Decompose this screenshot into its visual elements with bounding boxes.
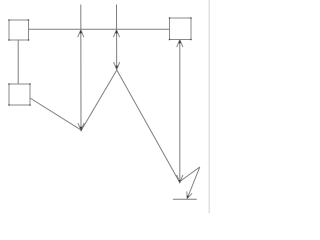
wire L2 shaft (vertical at x=116.5) bbox=[116, 5, 118, 70]
wire V2 shaft (box2 to node B) bbox=[179, 40, 181, 183]
box B1 (top-left) bbox=[9, 20, 29, 40]
wire L1 shaft (vertical at x=81) bbox=[80, 5, 82, 131]
node A tip dot bbox=[80, 129, 82, 132]
arrowhead L2 up (tip at horizontal wire) bbox=[113, 30, 119, 37]
arrowhead L1 down (tip at node A) bbox=[78, 123, 84, 130]
wire D2 (apex to node B) bbox=[117, 70, 180, 182]
arrowhead E2 (at ground) bbox=[187, 191, 192, 198]
wire D1 (apex to node A) bbox=[81, 70, 117, 130]
wire V-conn (box1 to box3) bbox=[17, 40, 19, 84]
wire E1 (node B to peak) bbox=[180, 167, 200, 182]
arrowhead V2 up (tip at box2 bottom) bbox=[177, 40, 183, 47]
arrowhead V2 down (tip at node B) bbox=[177, 175, 183, 182]
wire E2 (peak to ground) bbox=[187, 167, 200, 199]
ground bbox=[173, 198, 197, 200]
arrowhead L1 up (tip at horizontal wire) bbox=[78, 30, 84, 37]
arrowhead L2 down (tip at apex node) bbox=[114, 62, 120, 69]
wire H (top horizontal between boxes) bbox=[29, 28, 170, 30]
box B3 (middle-left) bbox=[9, 84, 30, 105]
wire D3 (box3 to node A) bbox=[30, 98, 81, 130]
page edge line bbox=[208, 0, 210, 213]
box B2 (top-right) bbox=[170, 18, 192, 40]
